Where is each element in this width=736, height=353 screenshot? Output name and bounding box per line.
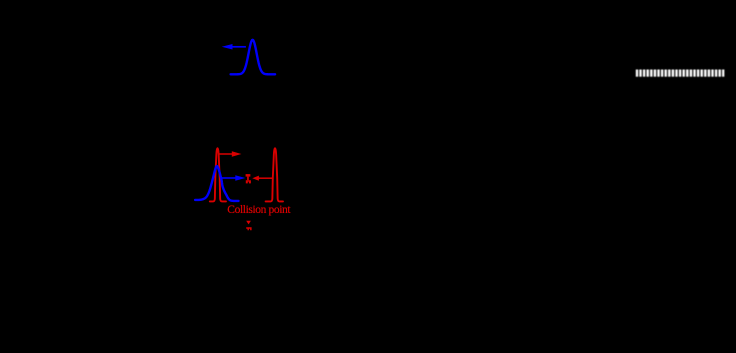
blue arrow rightward: [222, 175, 245, 181]
small glyph below marker: [246, 227, 251, 230]
middle blue wide gaussian: [195, 166, 238, 201]
red arrow leftward: [252, 176, 272, 181]
red symbol I between arrows: [246, 174, 251, 183]
svg-text:Collision point: Collision point: [227, 204, 291, 216]
micro-bunched striped bar: [636, 70, 725, 77]
small down triangle marker: [246, 221, 251, 225]
top blue bunch gaussian: [231, 40, 276, 75]
left red spike: [210, 148, 226, 201]
blue arrow leftward above top gaussian: [222, 44, 246, 50]
red arrow rightward (upper): [220, 151, 242, 156]
right red spike: [266, 148, 283, 201]
